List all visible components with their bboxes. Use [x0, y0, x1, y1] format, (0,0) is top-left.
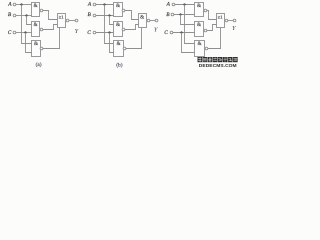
watermark CJK text block	[198, 57, 238, 62]
wire C branch (b)	[110, 33, 114, 53]
wire C (c)	[173, 32, 195, 34]
svg-text:&: &	[140, 15, 144, 21]
wire B branch (c)	[181, 15, 195, 25]
node A junction (a)	[20, 3, 22, 5]
svg-text:C: C	[8, 30, 12, 36]
wire C branch (a)	[26, 33, 32, 53]
output Y terminal (a)	[75, 19, 80, 35]
svg-text:A: A	[7, 1, 12, 7]
wire B (b)	[96, 15, 114, 17]
input B terminal (b)	[87, 12, 95, 18]
node A junction (b)	[103, 3, 105, 5]
wire G1 output to final gate (a)	[43, 11, 58, 20]
node B junction (a)	[25, 14, 27, 16]
svg-text:Y: Y	[232, 25, 237, 32]
node C junction (b)	[108, 31, 110, 33]
svg-text:B: B	[87, 12, 91, 18]
node B junction (b)	[108, 14, 110, 16]
svg-text:&: &	[116, 22, 120, 28]
NAND gate G2 (a)	[32, 22, 43, 37]
final gate ≥1 (a)	[58, 14, 69, 28]
svg-text:≥1: ≥1	[218, 15, 223, 20]
wire B (a)	[16, 15, 32, 17]
output Y terminal (c)	[232, 19, 237, 32]
svg-text:Y: Y	[154, 26, 159, 33]
NAND gate G1 (b)	[114, 3, 125, 17]
svg-text:C: C	[164, 30, 168, 36]
input B terminal (a)	[8, 12, 16, 18]
svg-text:A: A	[166, 1, 171, 7]
svg-text:≥1: ≥1	[59, 15, 64, 20]
svg-text:&: &	[33, 3, 37, 9]
svg-text:&: &	[34, 41, 38, 47]
input C terminal (c)	[164, 30, 173, 36]
svg-text:&: &	[197, 41, 201, 47]
node C junction (c)	[180, 31, 182, 33]
NAND gate G3 (b)	[114, 41, 126, 57]
svg-text:B: B	[8, 12, 12, 18]
NAND gate G2 (c)	[195, 22, 207, 37]
svg-text:C: C	[87, 30, 91, 36]
wire G1 output to final gate (b)	[125, 11, 139, 20]
NAND gate G3 (c)	[195, 41, 208, 57]
node B junction (c)	[179, 13, 181, 15]
wire B branch (b)	[110, 16, 114, 25]
wire output Y (c)	[228, 20, 233, 22]
wire A branch (a)	[22, 5, 32, 44]
svg-text:A: A	[87, 1, 92, 7]
input C terminal (a)	[8, 30, 16, 36]
input C terminal (b)	[87, 30, 96, 36]
final gate ≥1 (c)	[217, 14, 228, 28]
svg-text:&: &	[116, 41, 120, 47]
input A terminal (c)	[166, 1, 175, 7]
wire A (c)	[175, 4, 195, 6]
node C junction (a)	[24, 31, 26, 33]
wire C (b)	[96, 32, 114, 34]
input B terminal (c)	[166, 12, 174, 18]
wire G2 output to final gate (b)	[125, 25, 139, 30]
wire A (b)	[96, 4, 114, 6]
wire G2 output to final gate (a)	[43, 25, 58, 30]
svg-text:&: &	[197, 22, 201, 28]
wire A branch (c)	[185, 5, 195, 44]
wire output Y (a)	[69, 20, 75, 22]
final gate & (b)	[139, 14, 150, 28]
wire C branch (c)	[182, 33, 195, 53]
NAND gate G3 (a)	[32, 41, 43, 57]
svg-text:&: &	[197, 3, 201, 9]
input A terminal (b)	[87, 1, 96, 7]
wire G3 output to final gate (a)	[43, 28, 60, 49]
output Y terminal (b)	[154, 19, 159, 33]
wire output Y (b)	[150, 20, 155, 22]
node A junction (c)	[183, 3, 185, 5]
svg-text:DEDECMS.COM: DEDECMS.COM	[199, 63, 237, 69]
wire B branch (a)	[27, 16, 32, 25]
wire A (a)	[16, 4, 32, 6]
wire C (a)	[16, 32, 32, 34]
svg-text:(b): (b)	[116, 61, 122, 68]
NAND gate G1 (c)	[195, 3, 207, 17]
svg-text:&: &	[116, 3, 120, 9]
svg-text:Y: Y	[75, 28, 80, 35]
NAND gate G1 (a)	[32, 3, 43, 17]
wire G3 output to final gate (c)	[208, 28, 221, 49]
svg-text:(a): (a)	[36, 61, 42, 68]
wire B (c)	[174, 14, 195, 16]
svg-text:&: &	[33, 22, 37, 28]
wire G1 output to final gate (c)	[207, 11, 217, 20]
wire A branch (b)	[105, 5, 114, 44]
wire G3 output to final gate (b)	[126, 28, 142, 49]
svg-text:B: B	[166, 12, 170, 18]
wire G2 output to final gate (c)	[207, 25, 217, 31]
NAND gate G2 (b)	[114, 22, 125, 37]
input A terminal (a)	[7, 1, 16, 7]
